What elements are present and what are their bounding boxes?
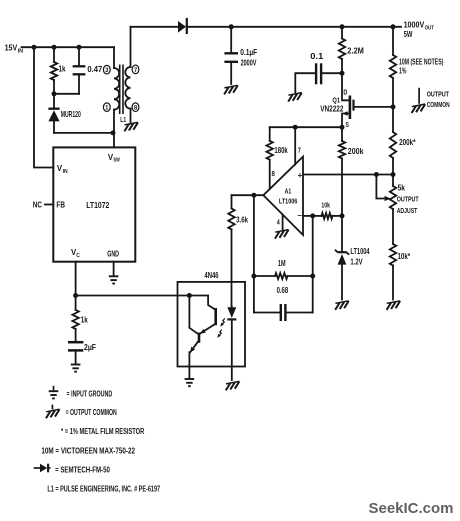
- LED in 4N46: [227, 307, 236, 318]
- svg-text:2.2M: 2.2M: [347, 46, 364, 55]
- resistor 10k (inverting): [313, 215, 322, 217]
- ground output-common at pin 8: [124, 122, 138, 131]
- svg-text:Q1: Q1: [332, 95, 340, 104]
- resistor 1k (snubber): [53, 47, 55, 62]
- resistor 3.6k: [231, 195, 233, 208]
- wire GND pin to ground: [113, 262, 115, 276]
- transformer L1 secondary winding: [130, 27, 132, 67]
- node junction rail/10M: [391, 24, 396, 29]
- wire Vsw rail: [54, 132, 114, 134]
- svg-text:15V: 15V: [5, 43, 18, 53]
- node junction rail/2.2M: [340, 24, 345, 29]
- light arrow 1: [221, 318, 224, 325]
- svg-text:NC: NC: [33, 201, 42, 210]
- resistor 180k: [269, 127, 271, 141]
- transformer L1 core: [119, 65, 121, 115]
- svg-text:2000V: 2000V: [241, 59, 257, 68]
- light arrow 2: [218, 330, 221, 337]
- svg-text:ADJUST: ADJUST: [397, 206, 418, 215]
- svg-text:−: −: [297, 211, 302, 220]
- svg-text:VN2222: VN2222: [320, 104, 344, 113]
- resistor 1M: [254, 275, 275, 277]
- pin 1 marker: [103, 103, 110, 112]
- wire feedback right leg: [312, 216, 314, 313]
- resistor 1k (Vc): [75, 296, 77, 310]
- resistor 2.2M: [341, 27, 343, 39]
- node junction divider bottom: [391, 172, 396, 177]
- wire Vc to opto: [76, 295, 209, 297]
- node junction source: [340, 125, 345, 130]
- node junction 1M left: [251, 274, 256, 279]
- node junction output/feedback: [251, 193, 256, 198]
- legend output common symbol: [51, 405, 53, 410]
- wiper arrow 5k: [376, 175, 385, 199]
- svg-text:1k: 1k: [81, 315, 88, 324]
- capacitor 0.47: [78, 47, 80, 66]
- wire gate to divider: [355, 106, 393, 108]
- svg-text:SeekIC.com: SeekIC.com: [369, 501, 454, 517]
- potentiometer 5k: [392, 175, 394, 187]
- svg-text:3.6k: 3.6k: [236, 215, 249, 224]
- node junction gate/10M/200k*: [391, 104, 396, 109]
- node junction 1M right: [310, 274, 315, 279]
- svg-text:* = 1% METAL FILM RESISTOR: * = 1% METAL FILM RESISTOR: [61, 427, 144, 436]
- ground input below 2uF: [71, 365, 81, 372]
- wire inverting input: [303, 215, 313, 217]
- svg-text:+: +: [298, 171, 303, 180]
- svg-text:OUT: OUT: [425, 25, 435, 31]
- svg-text:5k: 5k: [398, 183, 406, 192]
- node junction drain/2.2M/0.1: [340, 71, 345, 76]
- resistor 200k* (divider): [392, 107, 394, 132]
- svg-text:4N46: 4N46: [204, 271, 219, 280]
- svg-text:5W: 5W: [404, 29, 413, 39]
- svg-text:OUTPUT: OUTPUT: [397, 195, 419, 204]
- node junction opto collector: [187, 293, 192, 298]
- svg-text:MUR120: MUR120: [61, 110, 81, 119]
- ground output-common at LED cathode: [226, 381, 240, 390]
- svg-text:LT1006: LT1006: [279, 197, 297, 206]
- svg-text:D: D: [343, 89, 347, 96]
- svg-text:0.1: 0.1: [310, 52, 323, 61]
- transformer L1 primary winding: [113, 47, 115, 68]
- wire pin 4: [282, 215, 284, 229]
- svg-text:L1: L1: [120, 115, 126, 124]
- op-amp A1 LT1006: [263, 157, 303, 235]
- svg-text:L1 = PULSE ENGINEERING, INC.: L1 = PULSE ENGINEERING, INC. # PE-6197: [47, 485, 160, 494]
- svg-text:10k*: 10k*: [398, 252, 411, 261]
- node junction wiper tap: [374, 172, 379, 177]
- svg-text:1%: 1%: [399, 67, 406, 76]
- wire noninverting sense rail: [303, 174, 393, 176]
- ground output-common below 10k*: [387, 301, 401, 310]
- wire Vin branch: [34, 47, 53, 167]
- capacitor 0.1uF 2000V: [230, 27, 232, 53]
- ground output-common at pin 4: [275, 230, 289, 239]
- IC U1 LT1072 box: [53, 147, 135, 261]
- wire FB stub: [45, 204, 53, 206]
- resistor 10M (Victoreen): [392, 27, 394, 55]
- resistor 200k (source load): [341, 127, 343, 141]
- transistor Q1 VN2222: [342, 73, 349, 100]
- capacitor 0.68: [254, 312, 279, 314]
- wire pin 7 supply: [294, 127, 296, 164]
- svg-text:IN: IN: [18, 48, 23, 54]
- wire op-amp output: [232, 194, 264, 196]
- svg-text:COMMON: COMMON: [427, 100, 450, 109]
- svg-text:LT1004: LT1004: [350, 247, 370, 256]
- svg-text:200k: 200k: [348, 147, 364, 156]
- svg-text:0.68: 0.68: [277, 286, 289, 295]
- diode LT1004 1.2V reference: [341, 216, 343, 252]
- svg-text:1.2V: 1.2V: [350, 258, 363, 267]
- legend input ground symbol: [53, 386, 55, 391]
- svg-text:0.47: 0.47: [87, 65, 102, 74]
- svg-text:= OUTPUT COMMON: = OUTPUT COMMON: [66, 408, 117, 417]
- diode MUR120: [53, 94, 55, 108]
- svg-text:= INPUT GROUND: = INPUT GROUND: [67, 390, 113, 399]
- ground output-common below LT1004: [335, 301, 349, 310]
- svg-text:200k*: 200k*: [399, 138, 416, 147]
- svg-text:2µF: 2µF: [84, 343, 96, 352]
- ground output-common below 0.1uF: [224, 85, 238, 94]
- svg-text:SW: SW: [113, 158, 120, 164]
- svg-text:C: C: [76, 253, 80, 259]
- wire snubber bottom link: [54, 93, 79, 95]
- svg-text:OUTPUT: OUTPUT: [427, 90, 449, 99]
- svg-text:8: 8: [272, 169, 275, 178]
- optocoupler 4N46 box: [178, 282, 246, 367]
- svg-text:10M (SEE NOTES): 10M (SEE NOTES): [399, 57, 444, 66]
- svg-text:1k: 1k: [59, 64, 66, 73]
- svg-text:IN: IN: [63, 169, 68, 175]
- wire HV rail right: [187, 26, 401, 28]
- svg-text:GND: GND: [107, 249, 119, 258]
- legend diode symbol: [34, 467, 40, 469]
- ground input at GND pin: [109, 276, 119, 283]
- svg-text:7: 7: [298, 146, 301, 155]
- svg-text:0.1µF: 0.1µF: [240, 48, 257, 57]
- svg-text:LT1072: LT1072: [86, 201, 110, 210]
- node junction rail/0.1uF: [229, 24, 234, 29]
- wire HV rail left: [131, 26, 178, 28]
- wire feedback left leg: [253, 195, 255, 312]
- transistor opto Q-B: [198, 333, 201, 343]
- svg-text:10k: 10k: [321, 200, 330, 209]
- capacitor 2uF: [68, 341, 83, 344]
- node junction pin7 tap: [293, 125, 298, 130]
- ground output-common stub (top right): [418, 88, 420, 104]
- node junction 15V/1k: [52, 45, 57, 50]
- pin 3 marker: [103, 65, 110, 74]
- svg-text:FB: FB: [56, 201, 65, 210]
- pin 8 marker: [132, 103, 139, 112]
- node junction Vsw/primary: [111, 130, 116, 135]
- capacitor 0.1 (drain bypass): [323, 72, 342, 74]
- diode rectifier SEMTECH-FM-50: [178, 21, 186, 33]
- svg-text:S: S: [345, 122, 349, 129]
- node junction 10k/LT1004: [340, 213, 345, 218]
- node junction 15V/0.47: [77, 45, 82, 50]
- node junction snubber bottom: [52, 91, 57, 96]
- svg-text:1M: 1M: [278, 259, 286, 268]
- svg-text:4: 4: [277, 217, 280, 226]
- wire 15V input rail: [22, 46, 115, 48]
- node junction Vc: [73, 293, 78, 298]
- svg-text:A1: A1: [285, 186, 292, 195]
- svg-text:= SEMTECH-FM-50: = SEMTECH-FM-50: [55, 465, 110, 474]
- pin 7 marker: [132, 65, 139, 74]
- svg-text:10M = VICTOREEN MAX-750-22: 10M = VICTOREEN MAX-750-22: [41, 446, 135, 455]
- svg-text:180k: 180k: [274, 146, 288, 155]
- transistor opto Q-A: [208, 296, 215, 310]
- wire source to op-amp supply: [270, 126, 342, 128]
- wire Vsw pin: [113, 133, 115, 148]
- ground output-common below 0.1: [288, 93, 302, 102]
- node junction -input/1M: [310, 213, 315, 218]
- wire Vc pin: [75, 262, 77, 296]
- node junction 15V/Vin: [32, 45, 37, 50]
- resistor 10k*: [390, 244, 396, 266]
- ground input at opto emitter: [185, 379, 195, 386]
